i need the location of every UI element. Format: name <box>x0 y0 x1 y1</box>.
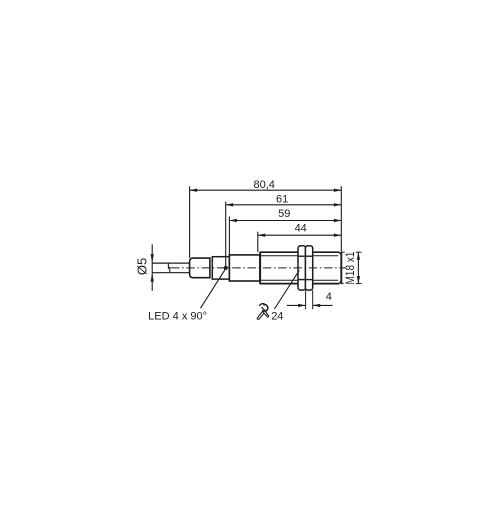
svg-text:4: 4 <box>326 291 332 303</box>
extension line 44 <box>257 232 259 253</box>
LED leader line <box>201 269 226 309</box>
cable <box>152 262 190 264</box>
svg-text:LED 4 x 90°: LED 4 x 90° <box>148 311 207 323</box>
mid housing section <box>229 255 260 281</box>
sensor boot (strain relief) <box>190 258 210 278</box>
thread start face <box>259 252 261 283</box>
thread root top <box>260 255 338 257</box>
thread crest top <box>260 251 340 253</box>
nut hex flat line bottom <box>298 279 313 281</box>
svg-text:61: 61 <box>276 193 288 205</box>
dimension Ø5 arrow bottom <box>151 273 154 282</box>
wrench icon <box>257 304 268 320</box>
lock nut 2 <box>305 246 312 290</box>
dimension Ø5 line <box>151 244 153 291</box>
thread end chamfer top <box>339 252 341 255</box>
nut hex flat line top <box>298 255 313 257</box>
LED dot <box>224 266 228 270</box>
svg-text:M18 x1: M18 x1 <box>345 252 357 285</box>
extension line right (common) <box>340 186 342 284</box>
dimension 4 line <box>287 304 306 306</box>
dimension 44 <box>258 234 342 236</box>
svg-text:Ø5: Ø5 <box>134 258 149 275</box>
lock nut 1 <box>298 246 306 290</box>
thread end chamfer bottom <box>339 281 341 284</box>
svg-text:44: 44 <box>295 222 307 234</box>
dimension 4 (nut) extension lines <box>305 290 307 309</box>
dimension 80,4 <box>190 189 342 191</box>
M18 extension stubs <box>341 251 344 253</box>
centerline <box>171 267 346 269</box>
thread crest bottom <box>260 283 340 285</box>
svg-text:80,4: 80,4 <box>253 179 274 191</box>
dimension 61 <box>226 204 342 206</box>
extension line 61 <box>225 202 227 267</box>
dimension Ø5 arrow top <box>151 254 154 263</box>
wrench leader line <box>274 270 299 309</box>
dimension 59 <box>229 220 341 222</box>
rear housing section <box>212 257 229 279</box>
extension line 59 <box>228 217 230 255</box>
extension line left (80,4) <box>189 186 191 258</box>
thread root bottom <box>260 279 338 281</box>
svg-text:24: 24 <box>271 310 283 322</box>
dimension M18 line <box>357 252 359 283</box>
cable break mark <box>168 263 169 273</box>
svg-text:59: 59 <box>278 208 290 220</box>
body end face <box>340 253 342 284</box>
